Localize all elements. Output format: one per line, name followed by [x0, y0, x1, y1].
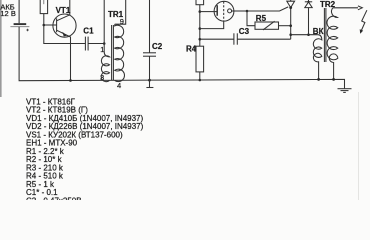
wire HV output with arrow	[333, 6, 363, 10]
node VS1/R5	[289, 24, 292, 27]
node tube cathode junction	[199, 27, 202, 30]
svg-text:C1: C1	[83, 27, 94, 36]
left page border strip	[0, 0, 2, 97]
node base junction	[43, 24, 46, 27]
wire rail to tube anode	[200, 11, 214, 13]
node VS1 rail / TR2 wire	[289, 33, 292, 36]
wire battery minus down and bottom bus	[19, 27, 344, 89]
node VD1-bar	[307, 1, 309, 3]
label VT1	[56, 6, 71, 15]
wire C2 top (cut)	[149, 0, 151, 53]
svg-text:R4: R4	[186, 45, 197, 54]
wire node down to R5	[247, 11, 255, 26]
node VD1 bottom	[307, 33, 310, 36]
svg-text:12 В: 12 В	[0, 9, 15, 18]
transformer TR2 core	[324, 8, 326, 62]
battery + sign	[26, 29, 29, 32]
rail down left column	[199, 12, 201, 47]
resistor R4	[196, 46, 204, 72]
capacitor C2	[143, 53, 156, 56]
transformer TR1 left winding pins 1-3	[101, 44, 109, 82]
node VS1 cathode/gate	[289, 6, 292, 9]
svg-text:C2: C2	[152, 42, 163, 51]
transformer TR1 core	[112, 25, 114, 80]
node R4-bus	[199, 79, 202, 82]
battery GB АКБ 12 В label	[0, 2, 15, 18]
wire rail to C3	[200, 38, 234, 40]
capacitor C3	[234, 33, 237, 44]
wire C3 right	[237, 38, 290, 40]
battery АКБ plates	[10, 24, 29, 27]
pin label 3	[100, 73, 104, 82]
node TR2 secondary-bus	[332, 78, 335, 81]
right page border line	[358, 92, 360, 200]
label C3	[239, 27, 250, 36]
node emitter-bus	[69, 79, 72, 82]
wire node up (cut at top)	[103, 0, 105, 44]
label TR2	[320, 0, 336, 9]
node R3/tube junction	[199, 10, 202, 13]
wire C2 bottom	[149, 56, 151, 80]
resistor R1 (cut at top)	[40, 0, 47, 14]
node C2-bus	[148, 79, 151, 82]
wire R4 to bus	[199, 72, 201, 80]
thyratron EH1	[214, 1, 247, 21]
label TR1	[108, 10, 124, 19]
pin label 1	[100, 45, 104, 54]
svg-text:VT1: VT1	[56, 6, 71, 15]
label C1	[83, 27, 94, 36]
transformer TR2 secondary winding	[327, 8, 338, 80]
node TR2 primary-bus	[317, 78, 320, 81]
label BK	[313, 27, 324, 36]
node C1/TR1 junction	[103, 42, 106, 45]
label R5	[256, 14, 267, 23]
wire node to VS1 gate	[247, 7, 288, 11]
spark discharge symbol	[360, 10, 367, 34]
wire R1 to node	[43, 14, 45, 25]
parts list text	[26, 97, 144, 205]
thyristor VS1	[287, 0, 295, 39]
transformer TR2 primary winding BK	[313, 35, 322, 80]
svg-text:C3: C3	[239, 27, 250, 36]
pin label 4	[117, 81, 121, 90]
label C2	[152, 42, 163, 51]
transformer TR1 right winding pins 9-4	[115, 0, 126, 82]
wire C1 to node 1	[88, 43, 104, 45]
wire R3 to node	[199, 5, 201, 12]
wire node down to C1	[44, 25, 86, 44]
pin label 9	[120, 17, 124, 26]
wire node to VT1 base	[44, 24, 57, 26]
transistor VT1	[53, 0, 76, 80]
svg-text:C2 - 0.47х250В: C2 - 0.47х250В	[26, 196, 82, 200]
label R4	[186, 45, 197, 54]
wire to TR2 primary	[291, 34, 318, 36]
resistor R3 (cut at top)	[196, 0, 204, 5]
resistor R5 trimmer	[255, 21, 279, 30]
node tube out / R5	[246, 10, 249, 13]
svg-text:4: 4	[117, 81, 121, 90]
diode VD1	[305, 0, 312, 35]
node C3 junction	[199, 38, 202, 41]
wire battery top	[18, 0, 20, 23]
ground stub under C2	[146, 80, 153, 87]
ground earth symbol bottom right	[338, 89, 352, 93]
wire tube cathode down-left	[200, 21, 224, 29]
wire R5 right	[279, 25, 291, 27]
wire stub inside R1	[43, 0, 45, 4]
capacitor C1	[85, 37, 88, 51]
